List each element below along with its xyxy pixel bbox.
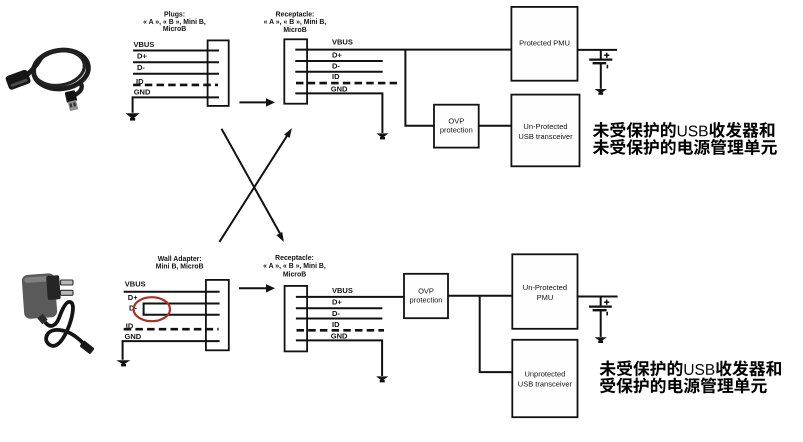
svg-text:Un-Protected: Un-Protected [523, 283, 567, 292]
svg-text:GND: GND [134, 88, 151, 97]
Unprotected USB transceiver box (bottom) [512, 340, 577, 417]
wire branch to transceiver (bottom) [480, 296, 513, 372]
svg-text:MicroB: MicroB [163, 26, 186, 33]
chinese caption (bottom) [600, 360, 781, 393]
wire ID receptacle dashed (top) [296, 82, 397, 85]
svg-text:MicroB: MicroB [283, 27, 306, 34]
svg-text:« A », « B », Mini B,: « A », « B », Mini B, [143, 19, 206, 26]
wire OVP to transceiver (top) [479, 125, 512, 127]
svg-text:GND: GND [331, 84, 348, 93]
svg-text:protection: protection [440, 125, 473, 134]
svg-text:VBUS: VBUS [332, 286, 353, 295]
svg-text:D-: D- [137, 63, 145, 72]
ground receptacle (top) [376, 133, 388, 139]
wire D+ receptacle (top) [295, 60, 382, 62]
svg-text:PMU: PMU [537, 293, 554, 302]
svg-text:Unprotected: Unprotected [524, 370, 565, 379]
red highlight ellipse [134, 297, 170, 321]
svg-text:D-: D- [332, 309, 340, 318]
svg-text:OVP: OVP [418, 286, 434, 295]
receptacle title (bottom) [263, 255, 326, 278]
wall adapter title [156, 256, 204, 271]
svg-text:GND: GND [331, 331, 348, 340]
adapter connector box (bottom) [206, 280, 229, 350]
wire D- receptacle (top) [295, 71, 382, 73]
svg-text:D+: D+ [332, 50, 342, 59]
svg-text:Receptacle:: Receptacle: [275, 255, 314, 262]
svg-text:GND: GND [125, 332, 142, 341]
wire ID plug dashed (top) [133, 84, 218, 87]
svg-text:ID: ID [332, 72, 340, 81]
receptacle box (bottom) [285, 286, 308, 352]
wire VBUS branch to OVP (top) [405, 50, 434, 126]
wire VBUS plug (top) [133, 50, 219, 52]
svg-text:Wall Adapter:: Wall Adapter: [158, 256, 202, 263]
wire D- plug (top) [133, 73, 219, 75]
svg-text:Mini B, MicroB: Mini B, MicroB [156, 264, 204, 271]
plug title (top) [143, 11, 206, 33]
svg-text:MicroB: MicroB [283, 271, 306, 278]
wire D- receptacle (bottom) [296, 318, 383, 320]
arrow plug to receptacle (top) [239, 98, 275, 106]
wire VBUS receptacle (bottom) [296, 296, 404, 298]
wire VBUS receptacle (top) [295, 49, 511, 51]
wire ID adapter dashed (bottom) [124, 328, 219, 331]
wire GND adapter (bottom) [123, 341, 220, 360]
chinese caption (top) [593, 122, 777, 155]
wire GND receptacle (bottom) [296, 340, 382, 376]
crossing arrow up-right [219, 128, 292, 242]
svg-text:Receptacle:: Receptacle: [276, 11, 315, 18]
svg-text:Un-Protected: Un-Protected [523, 122, 567, 131]
svg-text:D+: D+ [128, 293, 138, 302]
svg-text:USB transceiver: USB transceiver [518, 380, 573, 389]
svg-text:USB transceiver: USB transceiver [518, 132, 573, 141]
wire VBUS adapter (bottom) [124, 291, 220, 293]
svg-text:OVP: OVP [448, 116, 464, 125]
svg-text:D+: D+ [137, 51, 147, 60]
Un-Protected USB transceiver box (top) [511, 95, 579, 167]
Un-Protected PMU box (bottom) [512, 254, 577, 328]
wire OVP to PMU (bottom) [448, 295, 512, 297]
svg-text:« A », « B », Mini B,: « A », « B », Mini B, [263, 263, 326, 270]
Protected PMU box (top) [511, 7, 577, 81]
svg-text:Plugs:: Plugs: [164, 11, 185, 18]
receptacle title (top) [264, 11, 327, 34]
ground battery (top) [595, 89, 607, 95]
svg-text:ID: ID [332, 320, 340, 329]
battery B1 (top) [589, 50, 612, 89]
svg-text:VBUS: VBUS [332, 38, 353, 47]
ground receptacle (bottom) [376, 376, 388, 382]
wire D+ receptacle (bottom) [296, 307, 383, 309]
svg-text:« A », « B », Mini B,: « A », « B », Mini B, [264, 19, 327, 26]
ground adapter (bottom) [116, 360, 130, 366]
svg-text:D+: D+ [332, 298, 342, 307]
svg-text:Protected PMU: Protected PMU [519, 39, 570, 48]
arrow adapter to receptacle (bottom) [239, 284, 275, 292]
wire PMU to battery (top) [578, 49, 618, 51]
wire D+ plug (top) [133, 61, 219, 63]
wire ID receptacle dashed (bottom) [297, 329, 385, 332]
OVP protection box (top) [434, 105, 479, 148]
battery B2 (bottom) [589, 297, 612, 338]
wall adapter photo [22, 273, 95, 355]
ground battery (bottom) [595, 337, 607, 343]
USB cable photo [5, 47, 91, 111]
crossing arrow down-right [222, 129, 284, 242]
svg-text:VBUS: VBUS [134, 40, 155, 49]
OVP protection box (bottom) [404, 274, 448, 318]
wire GND receptacle (top) [295, 93, 382, 133]
wire GND plug (top) [133, 97, 219, 112]
plug connector box (top) [208, 40, 229, 106]
receptacle box (top) [284, 39, 307, 103]
svg-text:D-: D- [332, 61, 340, 70]
ground plug (top) [126, 113, 140, 120]
svg-text:ID: ID [136, 77, 144, 86]
wire D+ D- shorted loop (bottom) [144, 304, 220, 315]
wire PMU to battery (bottom) [578, 296, 618, 298]
svg-text:ID: ID [126, 322, 134, 331]
svg-text:VBUS: VBUS [125, 279, 146, 288]
svg-text:protection: protection [410, 295, 443, 304]
